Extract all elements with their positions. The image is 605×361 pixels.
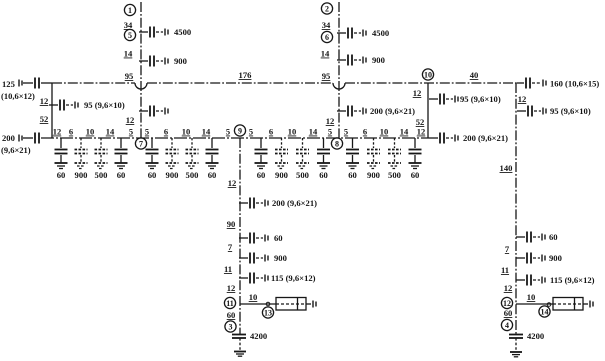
capacitor 95 (9,6x10) on right vertical [517,106,591,117]
svg-text:14: 14 [321,49,330,59]
svg-text:12: 12 [53,127,62,137]
capacitor 115 (9,6x12) on right vertical [516,275,595,286]
ground middle [234,352,246,357]
svg-text:5: 5 [249,127,253,137]
capacitor 900 on generator-1 column [139,56,187,67]
label 12 above bottom bus on generator-1 column [126,115,135,125]
svg-text:52: 52 [416,117,425,127]
capacitor 200 (9,6x21) on middle vertical [239,198,317,209]
shunt capacitor 60 to ground at bus x=415 [409,138,422,180]
svg-text:4500: 4500 [372,28,389,38]
svg-text:60: 60 [504,308,513,318]
svg-text:12: 12 [417,127,426,137]
series capacitor 160 (10,6x15) at right end of top bus [517,78,599,89]
wire: generator-1 vertical line [140,2,142,138]
series capacitor (10,6x12) on top-left feed [1,78,39,102]
node 8 [331,138,342,149]
svg-text:95: 95 [125,71,134,81]
wire: right load branch [516,303,553,305]
label 95 on top bus left of hop 2 [322,71,331,81]
wire: left vertical between buses [51,83,53,138]
shunt capacitor 60 to ground at bus x=352.5 [346,138,359,180]
svg-text:5: 5 [344,127,348,137]
svg-text:5: 5 [226,127,230,137]
capacitor 115 (9,6x12) on middle vertical [239,273,316,284]
svg-text:11: 11 [226,299,234,308]
label 7 on middle vertical [228,242,233,252]
svg-text:5: 5 [128,31,132,40]
svg-text:4: 4 [505,321,509,330]
label 40 on top bus [470,70,479,80]
crossover hop at generator-2 line [333,83,345,89]
svg-text:140: 140 [500,163,513,173]
shunt capacitor 900 to ground at bus x=81 [75,138,88,180]
svg-text:(9,6×21): (9,6×21) [1,145,31,155]
capacitor 200 (9,6x21) at bottom-bus right end [429,133,508,144]
wire: node-10 vertical to bottom bus [427,83,429,138]
svg-text:34: 34 [124,20,133,30]
label 34 segment generator 1 [124,20,133,30]
svg-text:14: 14 [124,49,133,59]
svg-text:9: 9 [238,126,242,135]
svg-text:12: 12 [326,116,335,126]
label 10 on middle load branch [249,292,258,302]
svg-text:900: 900 [166,170,179,180]
node: left source label 200 [2,133,15,143]
node 4 [501,319,512,330]
capacitor 900 on generator-2 column [337,55,385,66]
svg-text:60: 60 [227,310,236,320]
svg-text:900: 900 [367,170,380,180]
capacitor 900 on middle vertical [239,253,287,264]
svg-text:12: 12 [227,283,236,293]
svg-text:60: 60 [549,232,558,242]
svg-text:60: 60 [57,170,66,180]
svg-text:13: 13 [264,308,272,317]
wire bottom-left feed [23,137,33,139]
svg-text:12: 12 [518,94,527,104]
svg-text:7: 7 [505,244,510,254]
svg-text:7: 7 [139,139,143,148]
svg-text:3: 3 [229,322,233,331]
shunt capacitor 500 to ground at bus x=192 [186,138,199,180]
shunt capacitor 900 to ground at bus x=373.5 [367,138,380,180]
small capacitor at left of bottom feed [19,135,22,142]
node 12 [501,297,512,308]
junction dot right load branch [547,303,551,307]
svg-text:125: 125 [2,79,15,89]
svg-text:200 (9,6×21): 200 (9,6×21) [463,133,508,143]
shunt capacitor 60 to ground at bus x=61 [55,138,68,180]
svg-text:60: 60 [348,170,357,180]
node 3 [225,321,236,332]
svg-text:12: 12 [40,96,49,106]
shunt capacitor 60 to ground at bus x=121 [115,138,128,180]
label 95 on top bus left of hop 1 [125,71,134,81]
wire: generator-2 vertical line [338,2,340,138]
svg-text:1: 1 [128,6,132,15]
svg-text:60: 60 [117,170,126,180]
svg-text:60: 60 [274,233,283,243]
svg-text:6: 6 [69,127,73,137]
capacitor 4200 on middle vertical [232,331,267,341]
label 60 on right vertical bottom [504,308,513,318]
svg-text:900: 900 [75,170,88,180]
svg-text:6: 6 [269,127,273,137]
node 6 [321,31,332,42]
svg-text:60: 60 [319,170,328,180]
label 60 on middle vertical bottom [227,310,236,320]
wire: top bus segment 1 [52,82,135,84]
load box 13 (fuse) [276,298,316,311]
wire from series capacitor to corner node [41,82,52,84]
wire: middle vertical to ground [239,338,241,351]
capacitor 60 on middle vertical [239,233,283,244]
series capacitor (9,6x21) on bottom-left feed [1,133,39,156]
label 12 on middle vertical top [228,178,237,188]
wire: top bus segment to node 10 [345,82,517,84]
svg-text:500: 500 [388,170,401,180]
label 12 on node-10 vertical [413,88,422,98]
svg-text:6: 6 [325,33,329,42]
label 14 segment below node 6 [321,49,330,59]
label 52 on node-10 vertical [416,117,425,127]
wire: top bus segment 176 [147,82,333,84]
svg-text:11: 11 [224,264,232,274]
svg-text:60: 60 [411,170,420,180]
svg-text:10: 10 [380,127,389,137]
svg-text:14: 14 [202,127,211,137]
wire: middle load branch [240,303,276,305]
svg-text:11: 11 [501,265,509,275]
shunt capacitor 60 to ground at bus x=152 [146,138,159,180]
svg-text:176: 176 [239,70,253,80]
svg-text:200 (9,6×21): 200 (9,6×21) [370,106,415,116]
svg-text:34: 34 [322,20,331,30]
capacitor 200 (9,6x21) below top bus on generator-2 column [337,106,415,117]
svg-text:10: 10 [182,127,191,137]
svg-text:500: 500 [186,170,199,180]
svg-text:6: 6 [164,127,168,137]
wire top-left feed [23,82,33,84]
svg-text:60: 60 [148,170,157,180]
svg-text:115 (9,6×12): 115 (9,6×12) [271,273,316,283]
wire: middle vertical from node 9 [239,138,241,335]
ground right [510,352,522,357]
wire: bottom bus [41,137,429,139]
label 12 lower on middle vertical [227,283,236,293]
svg-text:160 (10,6×15): 160 (10,6×15) [550,79,599,89]
capacitor 95 (9,6x10) on node-10 vertical [429,94,501,105]
svg-text:10: 10 [86,127,95,137]
label 34 segment generator 2 [322,20,331,30]
svg-text:95: 95 [322,71,331,81]
svg-text:95 (9,6×10): 95 (9,6×10) [550,106,591,116]
shunt capacitor 500 to ground at bus x=101 [95,138,108,180]
label 11 on middle vertical [224,264,232,274]
labels: bottom bus segment lengths [53,127,426,137]
svg-text:95 (9,6×10): 95 (9,6×10) [460,94,501,104]
label 140 on right vertical [500,163,513,173]
wire: right vertical to ground [515,338,517,352]
svg-text:60: 60 [257,170,266,180]
label 52 on left vertical [40,114,49,124]
node 2 [321,3,332,14]
shunt capacitor 60 to ground at bus x=212 [206,138,219,180]
svg-text:115 (9,6×12): 115 (9,6×12) [550,275,595,285]
label 12 on left vertical [40,96,49,106]
svg-text:4200: 4200 [527,331,544,341]
label 11 on right vertical [501,265,509,275]
svg-text:12: 12 [504,283,513,293]
node 13 [262,307,273,318]
label 90 on middle vertical [227,219,236,229]
svg-text:(10,6×12): (10,6×12) [1,91,35,101]
capacitor 4200 on right vertical [509,331,544,341]
crossover hop at generator-1 line [135,83,147,89]
svg-text:14: 14 [400,127,409,137]
node 14 [539,306,550,317]
svg-text:10: 10 [249,292,258,302]
shunt capacitor 500 to ground at bus x=394.5 [388,138,401,180]
svg-text:10: 10 [527,292,536,302]
capacitor 60 on right vertical [516,232,558,243]
svg-text:14: 14 [309,127,318,137]
node 1 [124,4,135,15]
capacitor 95 (9,6x10) on left vertical [49,100,125,111]
label 176 on top bus [239,70,253,80]
svg-text:12: 12 [413,88,422,98]
capacitor 900 on right vertical [516,253,562,264]
svg-text:2: 2 [325,4,329,13]
svg-text:60: 60 [208,170,217,180]
svg-text:5: 5 [145,127,149,137]
capacitor stub below top bus on generator-1 column [139,106,168,117]
svg-text:40: 40 [470,70,479,80]
svg-text:4200: 4200 [250,331,267,341]
svg-text:52: 52 [40,114,49,124]
svg-text:200 (9,6×21): 200 (9,6×21) [272,198,317,208]
svg-text:5: 5 [328,127,332,137]
svg-text:90: 90 [227,219,236,229]
capacitor 4500 at node 5 [139,27,191,38]
svg-text:5: 5 [129,127,133,137]
label 14 segment below node 5 [124,49,133,59]
svg-text:900: 900 [372,55,385,65]
wire: right vertical from top bus [515,83,517,335]
node 5 [124,29,135,40]
svg-text:900: 900 [274,253,287,263]
junction dot middle load branch [266,302,270,306]
svg-text:900: 900 [549,253,562,263]
label 12 on right vertical top [518,94,527,104]
svg-text:12: 12 [228,178,237,188]
svg-text:4500: 4500 [174,27,191,37]
svg-text:12: 12 [503,299,511,308]
shunt capacitor 900 to ground at bus x=172 [166,138,179,180]
label 12 lower on right vertical [504,283,513,293]
svg-text:14: 14 [541,307,549,316]
capacitor 4500 at node 6 [337,28,389,39]
svg-text:95 (9,6×10): 95 (9,6×10) [84,100,125,110]
svg-text:900: 900 [174,56,187,66]
node 10 [422,69,433,80]
label 7 on right vertical [505,244,510,254]
svg-text:14: 14 [106,127,115,137]
shunt capacitor 500 to ground at bus x=302.5 [296,138,309,180]
svg-text:900: 900 [275,170,288,180]
node: left source label 125 [2,79,15,89]
label 12 above bottom bus on generator-2 column [326,116,335,126]
svg-text:10: 10 [424,70,432,79]
svg-text:12: 12 [126,115,135,125]
load box 14 (fuse) [553,298,593,311]
small capacitor at left of top feed [19,80,22,87]
svg-text:200: 200 [2,133,15,143]
svg-text:6: 6 [363,127,367,137]
shunt capacitor 60 to ground at bus x=261 [255,138,268,180]
shunt capacitor 60 to ground at bus x=323.5 [317,138,330,180]
svg-text:500: 500 [95,170,108,180]
shunt capacitor 900 to ground at bus x=281.5 [275,138,288,180]
label 10 on right load branch [527,292,536,302]
svg-text:500: 500 [296,170,309,180]
svg-text:8: 8 [335,139,339,148]
node 9 [234,125,245,136]
node 7 [135,138,146,149]
node 11 [224,297,235,308]
label (10,6x12) value note [0,0,1,1]
svg-text:7: 7 [228,242,233,252]
svg-text:10: 10 [288,127,297,137]
